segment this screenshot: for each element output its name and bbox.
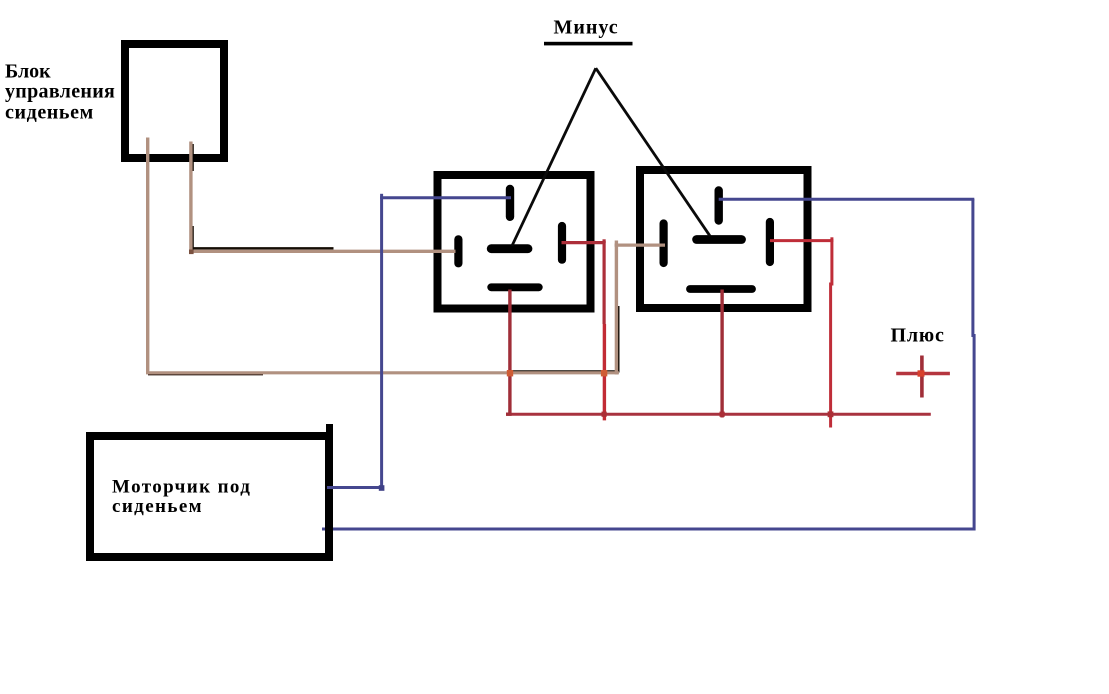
relay K2 box: [640, 170, 808, 308]
svg-text:Минус: Минус: [554, 17, 619, 39]
svg-text:управления: управления: [5, 81, 115, 103]
relay K1 pin 87a bottom: [491, 283, 539, 291]
svg-text:Плюс: Плюс: [891, 325, 945, 347]
relay K1 pin 87 right: [558, 226, 566, 260]
wire blue motor lower (under box border): [322, 199, 974, 529]
wire blue tick above corner: [380, 194, 383, 199]
relay K1 box: [438, 175, 591, 309]
svg-text:Блок: Блок: [5, 61, 51, 83]
relay K1 pin 86 left: [454, 239, 462, 263]
relay K1 pin 30 center: [491, 244, 528, 253]
wire blue relay K1 pin 85 to motor: [327, 198, 511, 488]
relay K2 pin 87 right: [766, 222, 774, 262]
relay K2 pin 85 top: [715, 191, 723, 221]
relay K2 pin 30 center: [697, 235, 742, 244]
wire blue relay K2 pin 85 horizontal: [719, 198, 975, 201]
motor box corner tick: [326, 424, 333, 433]
relay K2 pin 86 left: [659, 224, 667, 264]
junction brown x red at 604,373: [601, 370, 607, 376]
минус diagonal to relay K2: [596, 68, 710, 236]
junction bus at 604: [602, 412, 607, 417]
wire red plus bus: [506, 413, 931, 416]
motor box: [90, 436, 329, 557]
junction brown x red at 510,373: [507, 370, 513, 376]
wire black under brown from control unit pin B: [191, 144, 193, 171]
relay K1 pin 85 top: [506, 189, 514, 217]
wire black L under brown near relay 2: [512, 306, 618, 371]
junction brown corner at control pin B: [189, 250, 194, 255]
wire red relay K2 pin 87 to bus: [770, 241, 832, 428]
wire red relay K1 pin 87 to bus: [562, 243, 605, 324]
junction bus at 830: [828, 411, 834, 417]
svg-text:сиденьем: сиденьем: [5, 102, 94, 124]
wire crimson relay K1 pin 87a down: [506, 290, 510, 415]
plus symbol vertical: [920, 356, 924, 398]
wire brown control pin B to relay K1 pin 86: [189, 142, 192, 252]
plus symbol horizontal: [896, 372, 950, 376]
junction blue corner at motor: [379, 485, 385, 491]
wire brown control pin A to relay K2 pin 86: [148, 374, 263, 376]
wire crimson relay K2 pin 87a down: [720, 290, 723, 418]
минус diagonal to relay K1: [512, 68, 596, 246]
relay K2 pin 87a bottom: [690, 285, 752, 293]
svg-text:сиденьем: сиденьем: [112, 496, 203, 517]
wire red K2 corner tick: [830, 237, 833, 242]
svg-text:Моторчик под: Моторчик под: [112, 477, 251, 498]
plus symbol center blob: [918, 370, 925, 376]
минус underline: [544, 42, 633, 46]
junction bus at 722: [720, 412, 725, 417]
control unit box: [125, 44, 224, 158]
